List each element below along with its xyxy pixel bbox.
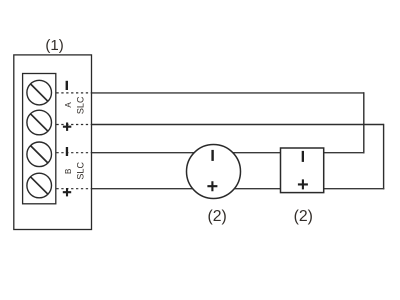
svg-text:(1): (1) [45,37,63,54]
screw terminal 3 [27,142,52,167]
screw terminal 1 [27,80,52,105]
dashed lead SLC B plus [56,188,91,190]
plus mark device U1 [207,181,217,191]
screw terminal 2 [27,110,52,135]
minus mark device U2 [302,151,304,162]
minus mark device U1 [211,150,213,161]
svg-text:SLC: SLC [75,162,85,180]
svg-text:(2): (2) [294,208,313,225]
terminal block outer body (1) [14,55,92,230]
wire SLC A plus (second horizontal run) [92,124,384,126]
plus mark terminal SLC B [63,188,71,196]
wire vertical return from SLC A plus down to device loop [383,124,385,190]
svg-text:SLC: SLC [75,96,85,114]
dashed lead SLC B minus [56,152,91,154]
device U2 square body [281,148,324,193]
svg-text:B: B [64,169,73,174]
terminal strip inner rect [23,74,56,204]
device U1 circle body [187,145,241,199]
wire SLC B plus out through devices to return junction [92,188,385,190]
svg-text:(2): (2) [207,208,226,225]
svg-text:A: A [64,102,73,108]
screw terminal 4 [27,173,52,198]
wire SLC A minus (top horizontal run) [92,92,364,94]
dashed lead SLC A plus [56,124,91,126]
minus mark terminal SLC A [66,81,68,90]
minus mark terminal SLC B [66,147,68,156]
wire vertical return from SLC A minus down to device loop [363,92,365,153]
plus mark device U2 [298,179,308,189]
dashed lead SLC A minus [56,92,91,94]
wire SLC B minus out through devices to return junction [92,152,365,154]
plus mark terminal SLC A [63,123,71,131]
